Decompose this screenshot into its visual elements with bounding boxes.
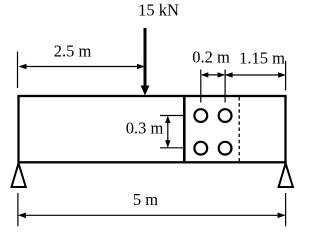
svg-text:15 kN: 15 kN [138, 1, 179, 20]
svg-text:2.5 m: 2.5 m [54, 42, 92, 61]
svg-text:0.2 m: 0.2 m [192, 48, 230, 67]
svg-text:0.3 m: 0.3 m [126, 119, 164, 138]
svg-text:5 m: 5 m [133, 190, 158, 209]
svg-text:1.15 m: 1.15 m [239, 49, 285, 68]
